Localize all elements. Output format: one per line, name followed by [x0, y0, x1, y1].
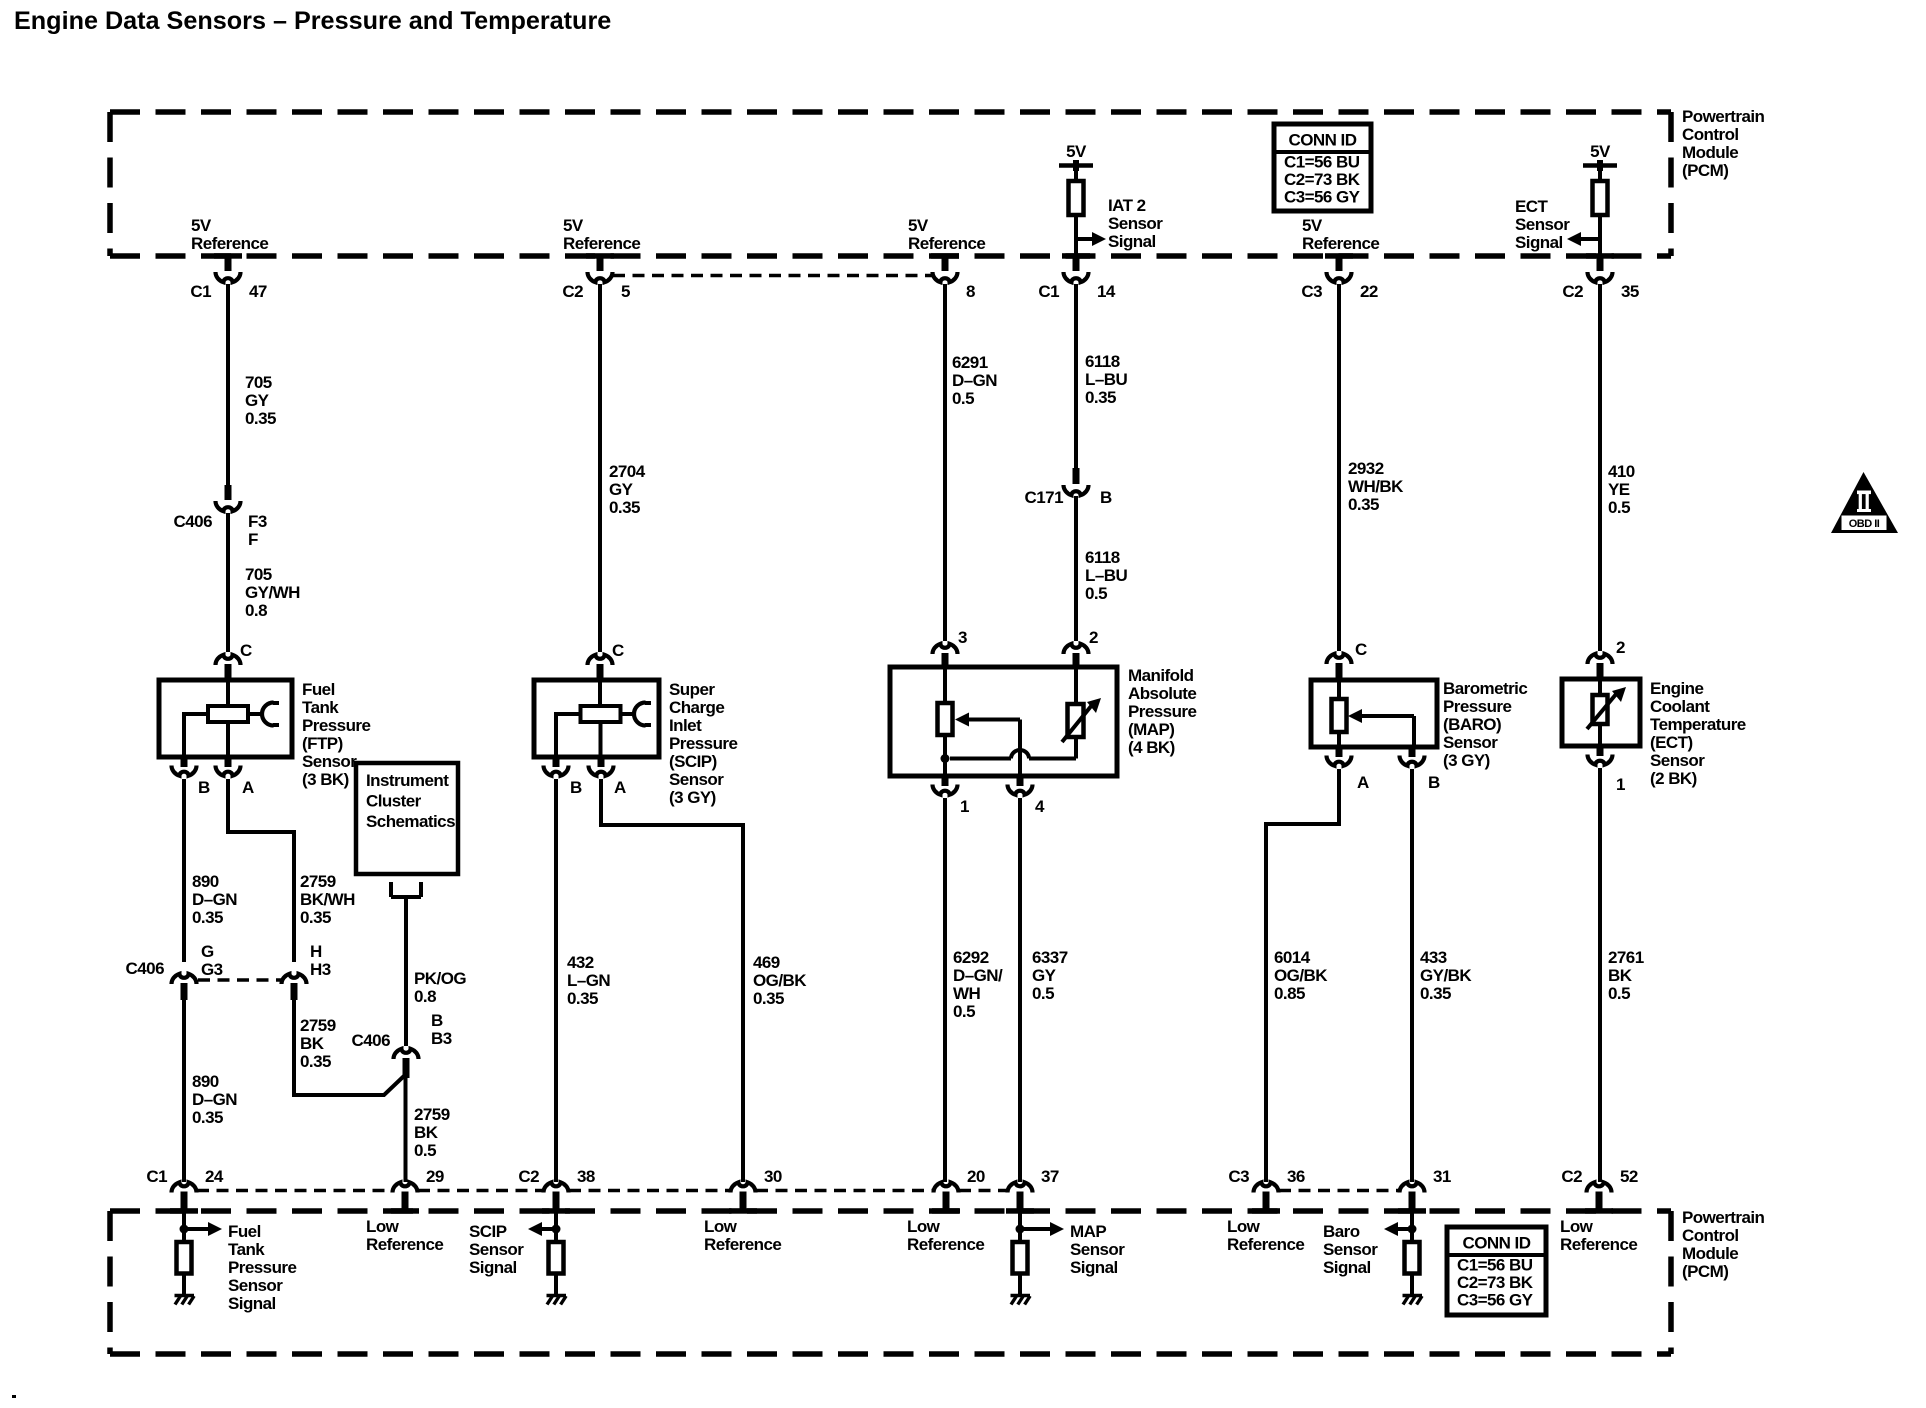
svg-text:OBD II: OBD II [1849, 518, 1880, 530]
label: C3 22 [1301, 282, 1378, 301]
label: C2 35 [1562, 282, 1639, 301]
svg-text:2: 2 [1616, 638, 1625, 657]
connector PCM -31 at bottom border [1400, 1182, 1425, 1211]
svg-text:(2 BK): (2 BK) [1650, 769, 1697, 788]
label: 2761 BK 0.5 [1608, 948, 1644, 1003]
svg-text:Sensor: Sensor [1323, 1240, 1378, 1259]
wire 6118 L-BU 0.5 (C171 to MAP 2) [1074, 496, 1078, 641]
svg-text:Schematics: Schematics [366, 812, 455, 831]
svg-text:B3: B3 [431, 1029, 452, 1048]
svg-text:8: 8 [966, 282, 975, 301]
svg-text:(3 BK): (3 BK) [302, 770, 349, 789]
svg-text:C2=73 BK: C2=73 BK [1284, 170, 1361, 189]
svg-text:Reference: Reference [1302, 234, 1379, 253]
label: F3 / F [248, 512, 267, 549]
connector MAP pin 2 [1064, 644, 1089, 667]
svg-text:0.85: 0.85 [1274, 984, 1305, 1003]
wire 6291 D-GN 0.5 (pin 8 to MAP 3) [943, 284, 947, 641]
svg-text:Tank: Tank [228, 1240, 265, 1259]
svg-text:CONN ID: CONN ID [1289, 131, 1357, 150]
svg-text:0.8: 0.8 [414, 987, 436, 1006]
BARO internal element (potentiometer) [1332, 682, 1415, 745]
CONN ID table (top): C1=56 BU, C2=73 BK, C3=56 GY [1274, 124, 1371, 211]
wire: pin 24 to FTP signal resistor [182, 1211, 186, 1242]
svg-text:GY: GY [245, 391, 270, 410]
svg-text:C1: C1 [146, 1167, 167, 1186]
label: Fuel Tank Pressure (FTP) Sensor (3 BK) [302, 680, 370, 789]
label: 2759 BK 0.5 [414, 1105, 450, 1160]
svg-text:BK: BK [414, 1123, 439, 1142]
svg-text:6337: 6337 [1032, 948, 1068, 967]
svg-text:Sensor: Sensor [669, 770, 724, 789]
svg-text:Low: Low [704, 1217, 738, 1236]
connector FTP pin C [216, 655, 241, 680]
svg-text:Reference: Reference [908, 234, 985, 253]
svg-text:C1=56 BU: C1=56 BU [1284, 153, 1360, 172]
arrow: ECT Sensor Signal [1567, 232, 1600, 246]
svg-text:BK: BK [300, 1034, 325, 1053]
label: Super Charge Inlet Pressure (SCIP) Sensor (3 GY) [669, 680, 737, 807]
label: C406 (G) [126, 959, 165, 978]
svg-text:CONN ID: CONN ID [1463, 1234, 1531, 1253]
svg-text:MAP: MAP [1070, 1222, 1106, 1241]
svg-text:OG/BK: OG/BK [753, 971, 807, 990]
svg-text:C2: C2 [518, 1167, 539, 1186]
svg-text:Sensor: Sensor [1108, 214, 1163, 233]
svg-text:6291: 6291 [952, 353, 988, 372]
svg-text:20: 20 [967, 1167, 985, 1186]
svg-text:1: 1 [960, 797, 969, 816]
ground (SCIP signal) [547, 1296, 567, 1305]
svg-text:B: B [1100, 488, 1112, 507]
label: 432 L-GN 0.35 [567, 953, 610, 1008]
svg-text:Module: Module [1682, 143, 1738, 162]
CONN ID table (bottom): C1=56 BU, C2=73 BK, C3=56 GY [1447, 1227, 1546, 1315]
connector PCM C3-36 at bottom border [1254, 1182, 1279, 1211]
svg-text:C2=73 BK: C2=73 BK [1457, 1273, 1534, 1292]
svg-text:30: 30 [764, 1167, 782, 1186]
label: 6292 D-GN/WH 0.5 [953, 948, 1003, 1021]
svg-text:5V: 5V [563, 216, 584, 235]
OBD II symbol (triangle) [1831, 472, 1898, 533]
svg-text:Sensor: Sensor [1650, 751, 1705, 770]
label: 410 YE 0.5 [1608, 462, 1635, 517]
svg-text:4: 4 [1035, 797, 1045, 816]
label: 4 (MAP pin) [1035, 797, 1045, 816]
svg-text:Cluster: Cluster [366, 792, 422, 811]
svg-text:6118: 6118 [1085, 352, 1120, 371]
svg-text:Powertrain: Powertrain [1682, 107, 1765, 126]
svg-text:Signal: Signal [469, 1258, 517, 1277]
wire: pin 31 to Baro signal resistor [1410, 1211, 1414, 1242]
label: Low Reference (pin 36) [1227, 1217, 1304, 1254]
connector BARO pin B [1400, 747, 1425, 766]
wire 705 GY 0.35 (C1-47 to C406) [226, 284, 230, 485]
connector SCIP pin B [544, 757, 569, 776]
connector BARO pin A [1327, 747, 1352, 766]
connector PCM -29 at bottom border [393, 1182, 418, 1211]
svg-text:2759: 2759 [300, 1016, 336, 1035]
label: IAT 2 Sensor Signal [1108, 196, 1163, 251]
svg-text:38: 38 [577, 1167, 595, 1186]
ECT internal element (thermistor) [1587, 681, 1626, 744]
svg-text:Reference: Reference [563, 234, 640, 253]
wire 6292 D-GN/WH 0.5 (MAP 1 to pin 20) [943, 798, 947, 1182]
svg-text:6014: 6014 [1274, 948, 1311, 967]
svg-text:14: 14 [1097, 282, 1116, 301]
junction + arrow: SCIP Sensor Signal [528, 1222, 561, 1236]
wire 890 D-GN 0.35 (C406 G to C1-24) [182, 1000, 186, 1182]
svg-text:IAT 2: IAT 2 [1108, 196, 1146, 215]
resistor: ECT pull-up [1593, 181, 1608, 215]
svg-text:6292: 6292 [953, 948, 989, 967]
svg-text:B: B [570, 778, 582, 797]
label: 37 [1041, 1167, 1059, 1186]
label: 20 [967, 1167, 985, 1186]
5V supply terminal (IAT 2) [1059, 160, 1093, 181]
label: B (BARO) [1428, 773, 1440, 792]
svg-text:0.8: 0.8 [245, 601, 267, 620]
svg-text:0.35: 0.35 [1420, 984, 1451, 1003]
svg-text:(MAP): (MAP) [1128, 720, 1174, 739]
label: 5V Reference (pin 47) [191, 216, 268, 253]
svg-text:0.5: 0.5 [952, 389, 974, 408]
svg-text:Manifold: Manifold [1128, 666, 1194, 685]
svg-text:A: A [242, 778, 254, 797]
label: C1 14 [1038, 282, 1116, 301]
wire 2761 BK 0.5 (ECT 1 to C2-52) [1598, 768, 1602, 1182]
dashed connector link between pins 5 and 8 [613, 274, 933, 278]
label: 705 GY/WH 0.8 [245, 565, 300, 620]
label: 5V Reference (pin 5) [563, 216, 640, 253]
svg-text:PK/OG: PK/OG [414, 969, 466, 988]
label: C (BARO pin) [1355, 640, 1367, 659]
label: SCIP Sensor Signal [469, 1222, 524, 1277]
label: Low Reference (pin 30) [704, 1217, 781, 1254]
svg-text:0.5: 0.5 [1032, 984, 1054, 1003]
svg-text:C1: C1 [190, 282, 211, 301]
svg-text:0.5: 0.5 [1085, 584, 1107, 603]
label: 890 D-GN 0.35 (upper) [192, 872, 237, 927]
svg-text:Barometric: Barometric [1443, 679, 1527, 698]
svg-text:C2: C2 [1561, 1167, 1582, 1186]
connector SCIP pin A [589, 757, 614, 776]
svg-text:0.5: 0.5 [414, 1141, 436, 1160]
svg-text:BK/WH: BK/WH [300, 890, 355, 909]
svg-text:1: 1 [1616, 775, 1625, 794]
label: 5V (ECT supply) [1590, 142, 1611, 161]
label: 6014 OG/BK 0.85 [1274, 948, 1328, 1003]
svg-text:C2: C2 [562, 282, 583, 301]
svg-text:Low: Low [366, 1217, 400, 1236]
svg-text:0.35: 0.35 [192, 908, 223, 927]
wire 2759 BK/WH 0.35 (FTP A to C406 H) [228, 779, 294, 962]
svg-text:2932: 2932 [1348, 459, 1384, 478]
connector PCM C2-8 at top border [933, 256, 958, 282]
label: 469 OG/BK 0.35 [753, 953, 807, 1008]
svg-text:Fuel: Fuel [302, 680, 335, 699]
label: A (FTP) [242, 778, 254, 797]
wire 705 GY/WH 0.8 (C406 to FTP C) [226, 513, 230, 652]
svg-text:D–GN: D–GN [192, 890, 237, 909]
svg-text:469: 469 [753, 953, 780, 972]
svg-text:410: 410 [1608, 462, 1635, 481]
label: 31 [1433, 1167, 1451, 1186]
connector PCM -37 at bottom border [1008, 1182, 1033, 1211]
label: C1 24 [146, 1167, 224, 1186]
svg-text:Sensor: Sensor [302, 752, 357, 771]
svg-text:Signal: Signal [1070, 1258, 1118, 1277]
label: C2 5 [562, 282, 630, 301]
label: PK/OG 0.8 [414, 969, 466, 1006]
svg-text:Sensor: Sensor [1070, 1240, 1125, 1259]
connector PCM -30 at bottom border [731, 1182, 756, 1211]
svg-text:0.35: 0.35 [1348, 495, 1379, 514]
svg-text:A: A [614, 778, 626, 797]
wire 2704 GY 0.35 (C2-5 to SCIP C) [598, 284, 602, 652]
label: 30 [764, 1167, 782, 1186]
svg-text:GY: GY [609, 480, 634, 499]
svg-text:H3: H3 [310, 960, 331, 979]
svg-text:L–BU: L–BU [1085, 370, 1127, 389]
svg-text:5V: 5V [1066, 142, 1087, 161]
label: 6337 GY 0.5 [1032, 948, 1068, 1003]
svg-text:890: 890 [192, 872, 219, 891]
label: Low Reference (pin 29) [366, 1217, 443, 1254]
svg-text:C3: C3 [1228, 1167, 1249, 1186]
svg-text:C3=56 GY: C3=56 GY [1457, 1290, 1534, 1309]
label: C171 [1025, 488, 1064, 507]
label: Instrument Cluster Schematics [366, 771, 455, 831]
label: 2 (MAP pin) [1089, 628, 1098, 647]
connector FTP pin A [216, 757, 241, 776]
label: 29 [426, 1167, 444, 1186]
svg-text:22: 22 [1360, 282, 1378, 301]
svg-text:2704: 2704 [609, 462, 646, 481]
svg-text:YE: YE [1608, 480, 1630, 499]
dashed link C406 G to H [198, 978, 281, 982]
svg-text:C406: C406 [352, 1031, 391, 1050]
svg-text:F: F [248, 530, 258, 549]
connector C406 pin F3/F inline [216, 485, 241, 511]
svg-text:2: 2 [1089, 628, 1098, 647]
label: C2 52 [1561, 1167, 1638, 1186]
connector SCIP pin C [588, 655, 613, 680]
label: H / H3 [310, 942, 331, 979]
svg-text:Tank: Tank [302, 698, 339, 717]
label: ECT Sensor Signal [1515, 197, 1570, 252]
svg-text:35: 35 [1621, 282, 1639, 301]
svg-text:(FTP): (FTP) [302, 734, 343, 753]
label: Powertrain Control Module (PCM) top-right [1682, 107, 1765, 180]
label: 2759 BK/WH 0.35 [300, 872, 355, 927]
svg-text:Reference: Reference [191, 234, 268, 253]
connector PCM C1-47 at top border [216, 256, 241, 282]
Powertrain Control Module (PCM) bottom dashed box [110, 1208, 1671, 1354]
label: 6118 L-BU 0.5 [1085, 548, 1127, 603]
svg-text:Sensor: Sensor [1443, 733, 1498, 752]
label: B (SCIP) [570, 778, 582, 797]
svg-text:Fuel: Fuel [228, 1222, 261, 1241]
svg-text:Temperature: Temperature [1650, 715, 1746, 734]
connector PCM C1-14 at top border [1064, 256, 1089, 282]
arrow: IAT 2 Sensor Signal [1076, 232, 1106, 246]
svg-text:Pressure: Pressure [302, 716, 370, 735]
svg-text:0.35: 0.35 [300, 1052, 331, 1071]
svg-text:A: A [1357, 773, 1369, 792]
svg-text:Sensor: Sensor [1515, 215, 1570, 234]
svg-text:Control: Control [1682, 1226, 1739, 1245]
svg-text:Charge: Charge [669, 698, 724, 717]
svg-text:L–GN: L–GN [567, 971, 610, 990]
connector ECT pin 2 [1588, 654, 1613, 679]
svg-text:890: 890 [192, 1072, 219, 1091]
svg-text:B: B [1428, 773, 1440, 792]
wire 6014 OG/BK 0.85 (BARO A to C3-36) [1266, 769, 1339, 1182]
svg-text:47: 47 [249, 282, 267, 301]
svg-text:31: 31 [1433, 1167, 1451, 1186]
label: 8 [966, 282, 975, 301]
svg-text:Reference: Reference [366, 1235, 443, 1254]
svg-text:Super: Super [669, 680, 715, 699]
svg-text:(3 GY): (3 GY) [669, 788, 716, 807]
SCIP internal element (resistor + pressure crescent) [556, 682, 651, 755]
svg-text:Signal: Signal [1515, 233, 1563, 252]
label: 2 (ECT pin) [1616, 638, 1625, 657]
wire: SCIP resistor to ground [554, 1274, 558, 1295]
svg-text:5: 5 [621, 282, 630, 301]
label: A (SCIP) [614, 778, 626, 797]
label: 2704 GY 0.35 [609, 462, 646, 517]
label: Low Reference (pin 20) [907, 1217, 984, 1254]
svg-text:Signal: Signal [1323, 1258, 1371, 1277]
svg-text:5V: 5V [1302, 216, 1323, 235]
svg-text:(3 GY): (3 GY) [1443, 751, 1490, 770]
label: Fuel Tank Pressure Sensor Signal [228, 1222, 296, 1313]
wire 890 D-GN 0.35 (FTP B to C406 G) [182, 779, 186, 962]
svg-text:(PCM): (PCM) [1682, 161, 1728, 180]
connector PCM -20 at bottom border [934, 1182, 959, 1211]
label: Engine Coolant Temperature (ECT) Sensor (2 BK) [1650, 679, 1746, 788]
label: A (BARO) [1357, 773, 1369, 792]
svg-text:Pressure: Pressure [1443, 697, 1511, 716]
label: 3 (MAP pin) [958, 628, 967, 647]
svg-text:3: 3 [958, 628, 967, 647]
label: 6291 D-GN 0.5 [952, 353, 997, 408]
svg-text:D–GN/: D–GN/ [953, 966, 1003, 985]
svg-text:OG/BK: OG/BK [1274, 966, 1328, 985]
svg-text:0.35: 0.35 [1085, 388, 1116, 407]
svg-text:2759: 2759 [300, 872, 336, 891]
wire: ECT resistor to pin 35 [1598, 215, 1602, 256]
connector MAP pin 4 [1008, 776, 1033, 795]
label: 6118 L-BU 0.35 [1085, 352, 1127, 407]
svg-text:432: 432 [567, 953, 594, 972]
svg-text:36: 36 [1287, 1167, 1305, 1186]
connector C171 pin B inline [1064, 468, 1089, 495]
wire: IAT 2 resistor to pin 14 [1074, 215, 1078, 256]
svg-text:Reference: Reference [907, 1235, 984, 1254]
svg-text:0.35: 0.35 [245, 409, 276, 428]
connector MAP pin 3 [933, 644, 958, 667]
svg-text:6118: 6118 [1085, 548, 1120, 567]
svg-text:(SCIP): (SCIP) [669, 752, 717, 771]
svg-text:(BARO): (BARO) [1443, 715, 1501, 734]
svg-text:Pressure: Pressure [669, 734, 737, 753]
label: B (C171) [1100, 488, 1112, 507]
connector C406 pin G/G3 [172, 974, 197, 1000]
label: C1 47 [190, 282, 267, 301]
svg-text:Powertrain: Powertrain [1682, 1208, 1765, 1227]
svg-text:C3: C3 [1301, 282, 1322, 301]
label: 705 GY 0.35 [245, 373, 276, 428]
svg-text:C1: C1 [1038, 282, 1059, 301]
label: C (FTP pin) [240, 641, 252, 660]
label: C (SCIP pin) [612, 641, 624, 660]
svg-text:Sensor: Sensor [228, 1276, 283, 1295]
label: MAP Sensor Signal [1070, 1222, 1125, 1277]
wire: Baro resistor to ground [1410, 1274, 1414, 1295]
label: Manifold Absolute Pressure (MAP) (4 BK) [1128, 666, 1196, 757]
ground (MAP signal) [1011, 1296, 1031, 1305]
svg-text:C171: C171 [1025, 488, 1064, 507]
svg-text:Engine Data Sensors – Pressure: Engine Data Sensors – Pressure and Tempe… [14, 7, 611, 35]
svg-text:5V: 5V [908, 216, 929, 235]
svg-text:Low: Low [1227, 1217, 1261, 1236]
connector C406 pin H/H3 [282, 974, 307, 1000]
svg-text:ECT: ECT [1515, 197, 1549, 216]
junction + arrow: Fuel Tank Pressure Sensor Signal [180, 1222, 223, 1236]
wire 433 GY/BK 0.35 (BARO B to pin 31) [1410, 769, 1414, 1182]
wire 432 L-GN 0.35 (SCIP B to C2-38) [554, 779, 558, 1182]
svg-text:Signal: Signal [228, 1294, 276, 1313]
svg-text:L–BU: L–BU [1085, 566, 1127, 585]
svg-text:Instrument: Instrument [366, 771, 449, 790]
sensor box: Barometric Pressure (BARO) Sensor [1311, 680, 1437, 747]
svg-text:F3: F3 [248, 512, 267, 531]
page footnote period [12, 1395, 16, 1398]
svg-text:C406: C406 [174, 512, 213, 531]
svg-text:(PCM): (PCM) [1682, 1262, 1728, 1281]
sensor box: Fuel Tank Pressure (FTP) Sensor [159, 680, 292, 757]
5V supply terminal (ECT) [1583, 160, 1617, 181]
Powertrain Control Module (PCM) top dashed box [110, 112, 1671, 259]
svg-text:5V: 5V [1590, 142, 1611, 161]
svg-text:Coolant: Coolant [1650, 697, 1710, 716]
wire: MAP resistor to ground [1018, 1274, 1022, 1295]
wire PK/OG 0.8 from Instrument Cluster [391, 882, 421, 1046]
svg-text:C: C [240, 641, 252, 660]
svg-text:C: C [1355, 640, 1367, 659]
label: C406 [174, 512, 213, 531]
label: 5V Reference (pin 22) [1302, 216, 1379, 253]
svg-text:705: 705 [245, 565, 272, 584]
label: 5V Reference (pin 8) [908, 216, 985, 253]
wire 6337 GY 0.5 (MAP 4 to pin 37) [1018, 798, 1022, 1182]
label: Low Reference (pin 52) [1560, 1217, 1637, 1254]
svg-text:0.35: 0.35 [609, 498, 640, 517]
svg-text:B: B [198, 778, 210, 797]
ground (Baro signal) [1403, 1296, 1423, 1305]
svg-text:WH: WH [953, 984, 980, 1003]
svg-text:Pressure: Pressure [1128, 702, 1196, 721]
svg-text:0.35: 0.35 [753, 989, 784, 1008]
label: Barometric Pressure (BARO) Sensor (3 GY) [1443, 679, 1527, 770]
dashed connector link row (bottom PCM pins) [197, 1189, 1399, 1193]
svg-text:Signal: Signal [1108, 232, 1156, 251]
svg-text:Reference: Reference [1560, 1235, 1637, 1254]
connector ECT pin 1 [1588, 746, 1613, 765]
